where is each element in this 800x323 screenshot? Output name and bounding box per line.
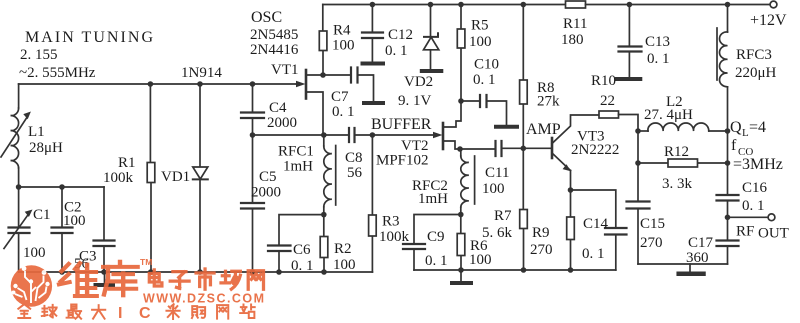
node main wire junction at R1 — [148, 81, 154, 87]
capacitor C14 — [571, 190, 627, 270]
node R3 top junction — [370, 132, 376, 138]
svg-text:100k: 100k — [379, 229, 410, 245]
label C14 value 0.1 — [582, 216, 609, 262]
svg-text:28μH: 28μH — [29, 140, 63, 156]
svg-text:R10: R10 — [591, 73, 616, 89]
node main wire junction at C4 — [250, 81, 256, 87]
svg-text:220μH: 220μH — [735, 65, 777, 81]
resistor R5 — [457, 5, 465, 102]
resistor R6 — [457, 215, 465, 282]
svg-text:270: 270 — [640, 235, 663, 251]
label C1 value 100 — [23, 207, 51, 261]
label C8 value 56 — [345, 150, 363, 181]
label R2 value 100 — [333, 241, 356, 273]
svg-text:1mH: 1mH — [418, 191, 448, 207]
watermark text 全球最大IC采购网站 — [18, 304, 254, 319]
label L2 value 27.4uH — [644, 94, 693, 123]
label C10 value 0.1 — [473, 57, 499, 89]
diode VD2 zener — [424, 5, 439, 70]
svg-text:C10: C10 — [474, 57, 499, 73]
resistor R1 — [147, 84, 155, 272]
svg-text:C17: C17 — [688, 235, 714, 251]
label C3 value 56 — [74, 249, 97, 273]
svg-text:0. 1: 0. 1 — [385, 43, 408, 59]
label C11 value 100 — [482, 165, 509, 197]
capacitor C1 variable — [4, 187, 33, 272]
svg-text:I: I — [118, 305, 122, 322]
capacitor C16 — [717, 195, 739, 217]
label R12 value 3.3k — [662, 144, 693, 192]
svg-text:C1: C1 — [33, 207, 51, 223]
resistor R12 — [638, 159, 728, 167]
label C13 value 0.1 — [645, 34, 670, 67]
svg-text:100: 100 — [469, 34, 492, 50]
svg-text:22: 22 — [600, 93, 615, 109]
svg-text:C14: C14 — [583, 216, 609, 232]
label C5 value 2000 — [251, 169, 281, 201]
resistor R3 — [369, 135, 377, 272]
label R8 value 27k — [537, 80, 560, 110]
svg-text:VD2: VD2 — [404, 74, 433, 90]
wire L2 left down to C15 — [637, 131, 639, 202]
svg-text:R5: R5 — [471, 18, 489, 34]
transistor VT3 2N2222 — [552, 115, 599, 190]
wire C8 to VT2 gate — [372, 134, 433, 136]
node RFC2 bottom junction — [458, 212, 464, 218]
capacitor C13 — [619, 5, 642, 78]
inductor RFC1 — [324, 135, 336, 215]
capacitor C3 — [94, 187, 115, 272]
node mid rail junction at R7 — [521, 267, 527, 273]
label C12 value 0.1 — [385, 27, 413, 59]
node top rail junction at C12 — [370, 2, 376, 8]
label C17 value 360 — [686, 235, 714, 266]
svg-text:MAIN TUNING: MAIN TUNING — [25, 29, 153, 46]
node VT2 source junction — [457, 146, 463, 152]
svg-text:2N4416: 2N4416 — [250, 42, 299, 58]
resistor R11 — [566, 1, 586, 8]
svg-text:9. 1V: 9. 1V — [398, 93, 432, 109]
wire RFC1 bottom to C6 — [279, 215, 324, 245]
svg-text:C: C — [139, 305, 151, 322]
diode VD1 — [193, 84, 208, 272]
node VT1 drain junction — [320, 72, 326, 78]
svg-text:2N5485: 2N5485 — [250, 27, 298, 43]
label R1 value 100k — [103, 155, 136, 186]
label R3 value 100k — [379, 214, 410, 246]
ground below C7 — [364, 101, 383, 105]
wire top rail right segment — [586, 4, 771, 6]
label QL=4 — [730, 119, 766, 139]
inductor RFC2 — [461, 149, 475, 215]
svg-text:L1: L1 — [28, 124, 45, 140]
label VT2 MPF102 — [376, 138, 429, 169]
svg-text:MPF102: MPF102 — [376, 153, 429, 169]
svg-text:0. 1: 0. 1 — [582, 246, 605, 262]
ground below C10 — [496, 125, 517, 129]
capacitor C6 — [268, 246, 291, 273]
capacitor C2 — [52, 187, 73, 272]
capacitor C8 — [349, 128, 372, 142]
svg-text:=4: =4 — [749, 119, 766, 136]
svg-text:R11: R11 — [563, 16, 587, 32]
svg-text:R3: R3 — [382, 214, 400, 230]
node RFC1 bottom junction — [321, 212, 327, 218]
watermark logo circle — [11, 265, 52, 306]
node mid rail junction at R6 — [458, 267, 464, 273]
capacitor C12 — [362, 5, 383, 63]
label C16 value 0.1 — [742, 180, 768, 214]
wire output bottom — [638, 263, 728, 265]
node ground rail junction at C5 — [250, 269, 256, 275]
label R4 value 100 — [332, 23, 355, 54]
node RF OUT tap junction — [725, 215, 731, 221]
svg-text:RFC3: RFC3 — [736, 47, 772, 63]
wire RFC3 bottom to C16 — [727, 131, 729, 195]
svg-text:R4: R4 — [333, 23, 351, 39]
svg-text:27k: 27k — [537, 94, 560, 110]
transistor VT2 JFET MPF102 — [433, 101, 461, 149]
inductor L1 variable — [1, 84, 31, 187]
svg-text:100: 100 — [63, 213, 86, 229]
label C9 value 0.1 — [425, 229, 448, 269]
label R7 value 5.6k — [482, 208, 513, 241]
node ground rail junction at C6 — [276, 269, 282, 275]
wire RFC2 bottom to C9 — [414, 215, 461, 244]
svg-text:VD1: VD1 — [161, 169, 190, 185]
resistor R9 — [567, 190, 575, 270]
wire L1 bottom to C2 C3 — [19, 186, 104, 188]
inductor L2 — [638, 123, 728, 131]
node top rail junction at R8 — [521, 2, 527, 8]
label RFC1 value 1mH — [278, 144, 314, 175]
svg-text:R7: R7 — [494, 208, 512, 224]
label RFC3 value 220uH — [735, 47, 777, 81]
svg-text:C11: C11 — [485, 165, 509, 181]
svg-text:C6: C6 — [293, 242, 311, 258]
node L2 left junction — [635, 128, 641, 134]
label L1 value 28uH — [28, 124, 63, 156]
svg-text:C12: C12 — [388, 27, 413, 43]
label C15 value 270 — [640, 216, 665, 251]
node C2 top junction — [59, 184, 65, 190]
svg-text:=3MHz: =3MHz — [733, 156, 783, 173]
resistor R7 — [520, 148, 528, 270]
node VT3 base junction — [521, 146, 527, 152]
resistor R8 — [520, 5, 528, 149]
svg-text:WWW.DZSC.COM: WWW.DZSC.COM — [143, 292, 264, 306]
svg-text:2000: 2000 — [267, 115, 297, 131]
node ground rail junction at VD1 — [197, 269, 203, 275]
transistor VT1 JFET — [296, 70, 323, 135]
capacitor C17 — [717, 217, 739, 264]
node ground rail junction at C2 — [59, 269, 65, 275]
svg-text:C9: C9 — [427, 229, 445, 245]
svg-text:TM: TM — [140, 257, 152, 267]
svg-text:3. 3k: 3. 3k — [662, 176, 693, 192]
label R6 value 100 — [469, 238, 492, 268]
capacitor C5 — [241, 135, 264, 272]
svg-text:RF: RF — [736, 224, 754, 240]
inductor RFC3 — [717, 5, 728, 130]
svg-text:R2: R2 — [334, 241, 352, 257]
wire C4-RFC1-C8 node y=135 — [253, 134, 350, 136]
svg-text:C4: C4 — [269, 100, 287, 116]
node top rail junction at RFC3 — [725, 2, 731, 8]
svg-text:2. 155: 2. 155 — [20, 47, 58, 63]
svg-text:100k: 100k — [103, 170, 134, 186]
label C2 value 100 — [63, 200, 86, 230]
label R5 value 100 — [469, 18, 492, 51]
node L1-C1-C2 junction — [16, 184, 22, 190]
ground symbol on left rail — [96, 272, 114, 285]
svg-text:100: 100 — [469, 252, 492, 268]
node ground rail junction at R1 — [148, 269, 154, 275]
node L2 right RFC3 junction — [725, 128, 731, 134]
wire bottom rail middle segment — [414, 269, 616, 271]
watermark text 电子市场网 — [149, 269, 263, 289]
svg-text:180: 180 — [561, 32, 584, 48]
wire top +12V rail left segment — [323, 4, 566, 6]
label C4 value 2000 — [267, 100, 297, 131]
svg-text:VT1: VT1 — [271, 62, 299, 78]
label C7 value 0.1 — [331, 89, 355, 120]
label MAIN TUNING — [19, 29, 153, 81]
svg-text:R12: R12 — [664, 144, 689, 160]
svg-text:+12V: +12V — [750, 12, 787, 29]
label R10 value 22 — [591, 73, 616, 109]
label VT3 2N2222 — [571, 129, 619, 159]
node top rail junction at R5 — [458, 2, 464, 8]
svg-text:C16: C16 — [742, 180, 768, 196]
svg-text:5. 6k: 5. 6k — [482, 225, 513, 241]
label R11 value 180 — [561, 16, 587, 48]
svg-text:L: L — [742, 127, 749, 139]
capacitor C15 — [627, 202, 650, 265]
svg-text:C8: C8 — [345, 150, 363, 166]
svg-text:f: f — [731, 137, 737, 154]
label VD2 value 9.1V — [398, 74, 433, 109]
svg-text:0. 1: 0. 1 — [425, 253, 448, 269]
ground below VD2 — [422, 69, 442, 73]
terminal +12V — [750, 1, 787, 29]
node RFC1 top junction — [321, 132, 327, 138]
svg-text:R1: R1 — [118, 155, 136, 171]
svg-text:0. 1: 0. 1 — [742, 198, 765, 214]
node ground rail junction at R2 — [321, 269, 327, 275]
node R12 left junction — [635, 160, 641, 166]
svg-text:0. 1: 0. 1 — [332, 104, 355, 120]
svg-text:AMP: AMP — [526, 121, 561, 138]
wire bottom ground rail left — [19, 271, 373, 273]
svg-text:2N2222: 2N2222 — [571, 142, 619, 158]
svg-text:Q: Q — [730, 119, 742, 136]
capacitor C4 — [241, 84, 264, 135]
svg-text:OSC: OSC — [251, 9, 282, 26]
svg-text:270: 270 — [530, 242, 553, 258]
svg-text:100: 100 — [332, 38, 355, 54]
svg-text:C5: C5 — [259, 169, 277, 185]
svg-text:100: 100 — [482, 181, 505, 197]
svg-text:~2. 555MHz: ~2. 555MHz — [19, 65, 96, 81]
svg-text:C7: C7 — [331, 89, 349, 105]
svg-text:C13: C13 — [645, 34, 670, 50]
label fCO=3MHz — [731, 137, 783, 173]
terminal RF OUT — [728, 214, 789, 242]
capacitor C11 — [460, 141, 552, 156]
node C4 bottom junction — [250, 132, 256, 138]
svg-text:C15: C15 — [640, 216, 665, 232]
node R12 right junction — [725, 160, 731, 166]
capacitor C9 — [403, 244, 425, 270]
svg-text:100: 100 — [23, 245, 46, 261]
wire main tuning net y=84 — [19, 83, 297, 85]
label R9 value 270 — [530, 225, 553, 258]
node VT2 drain R5 C10 junction — [458, 98, 464, 104]
ground below R6 — [452, 281, 471, 285]
resistor R4 — [319, 5, 327, 76]
watermark text 维库 — [59, 262, 138, 296]
svg-text:0. 1: 0. 1 — [473, 72, 496, 88]
svg-text:0. 1: 0. 1 — [647, 51, 670, 67]
label OSC 2N5485 2N4416 — [250, 9, 299, 58]
svg-text:56: 56 — [347, 165, 363, 181]
capacitor C10 — [461, 95, 507, 125]
node mid rail junction at R9 — [568, 267, 574, 273]
node main wire junction at VD1 — [197, 81, 203, 87]
label C6 value 0.1 — [291, 242, 314, 274]
ground below C13 — [617, 77, 640, 81]
svg-text:R9: R9 — [532, 225, 550, 241]
svg-text:1N914: 1N914 — [181, 65, 222, 81]
resistor R2 — [320, 215, 328, 272]
svg-text:RFC1: RFC1 — [278, 144, 314, 160]
label RFC2 value 1mH — [412, 178, 448, 207]
node ground rail junction at C3 — [101, 269, 107, 275]
svg-text:2000: 2000 — [251, 185, 281, 201]
ground below C12 — [363, 62, 384, 66]
capacitor C7 — [323, 68, 374, 102]
node top rail junction at VD2 — [428, 2, 434, 8]
svg-text:1mH: 1mH — [283, 159, 313, 175]
node VT3 emitter junction — [568, 187, 574, 193]
svg-text:100: 100 — [333, 257, 356, 273]
svg-text:OUT: OUT — [758, 226, 789, 242]
ground on output bottom — [679, 264, 704, 274]
node top rail junction at C13 — [627, 2, 633, 8]
svg-text:27. 4μH: 27. 4μH — [644, 107, 693, 123]
svg-text:BUFFER: BUFFER — [371, 116, 432, 133]
resistor R10 — [599, 111, 638, 131]
